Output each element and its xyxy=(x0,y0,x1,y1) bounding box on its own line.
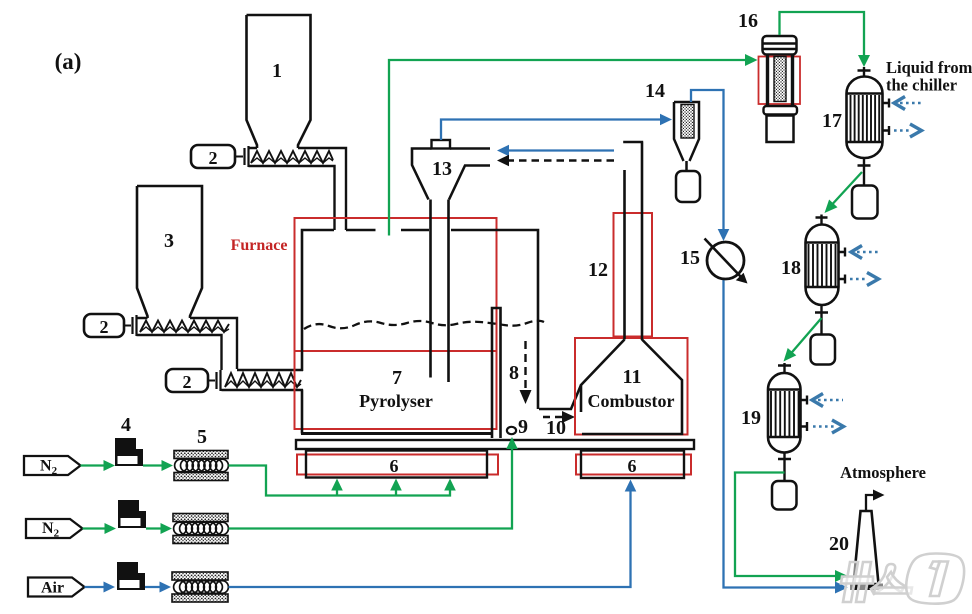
green line filter 16 to condenser 17 xyxy=(780,12,865,59)
svg-text:18: 18 xyxy=(781,257,801,279)
heater 6 left red box xyxy=(297,455,498,475)
svg-text:Liquid from: Liquid from xyxy=(886,58,972,77)
condenser 17 coolant nozzle in xyxy=(883,99,890,108)
filter 16 red box xyxy=(759,57,801,105)
screw conveyor 1 channel xyxy=(249,148,347,230)
collection pot under 17 xyxy=(852,186,878,219)
blue arrow riser gas to cyclone 13 xyxy=(504,149,614,151)
bed level dashed wavy line xyxy=(304,321,544,329)
svg-text:11: 11 xyxy=(623,366,642,388)
filter 16 candle element xyxy=(774,57,786,102)
combustor 11 body xyxy=(581,340,682,435)
wire preheater row2 to nozzle 9 xyxy=(229,446,513,529)
shaft 2a xyxy=(235,156,243,158)
screw feeder motor 2a xyxy=(191,145,235,168)
heater 6 right black box xyxy=(581,451,684,479)
svg-text:7: 7 xyxy=(392,367,402,389)
screw flights 2c xyxy=(225,373,301,387)
wire MFC to preheater row3 xyxy=(145,586,162,588)
hopper 1 xyxy=(247,15,311,148)
stack outlet arrow xyxy=(866,495,875,511)
shaft 2b xyxy=(124,325,131,327)
svg-text:19: 19 xyxy=(741,407,761,429)
condenser 18 top nozzle xyxy=(816,215,828,227)
svg-text:5: 5 xyxy=(197,426,207,448)
condenser 19 top nozzle xyxy=(778,363,791,374)
wire MFC to preheater row1 xyxy=(143,464,164,466)
dotted arrow out 17 xyxy=(894,129,912,132)
condenser 18 coolant nozzle in xyxy=(839,248,846,257)
wire preheater row1 to pyrolyser heater xyxy=(229,466,451,496)
svg-text:6: 6 xyxy=(390,456,399,476)
condenser 19 coolant nozzle out xyxy=(801,422,808,431)
wire N2 to MFC row1 xyxy=(81,464,107,466)
wire preheater row3 to combustor heater xyxy=(229,489,631,587)
shaft 2c xyxy=(208,380,215,382)
condenser 17 tubes xyxy=(851,95,880,141)
transfer duct roof to combustor xyxy=(539,385,581,409)
condenser 18 tubes xyxy=(809,244,836,286)
svg-text:Combustor: Combustor xyxy=(587,391,674,411)
svg-text:Furnace: Furnace xyxy=(231,237,288,254)
condenser 17 bottom nozzle xyxy=(858,158,871,186)
svg-text:3: 3 xyxy=(164,230,174,252)
combustor red box xyxy=(575,338,688,435)
condenser 19 bottom nozzle xyxy=(778,453,791,482)
coupling 2c xyxy=(215,372,217,389)
svg-text:13: 13 xyxy=(432,158,452,180)
blower valve 15 xyxy=(707,242,744,279)
furnace red box xyxy=(295,218,497,429)
svg-text:17: 17 xyxy=(822,110,842,132)
heater green arrows xyxy=(336,488,338,496)
pyrolyser weir wall xyxy=(492,308,501,438)
mass flow controller 4 row1 xyxy=(115,438,136,466)
blue line valve 15 down to stack xyxy=(724,280,841,588)
stack 20 xyxy=(854,511,879,584)
preheater 5 row3 xyxy=(172,572,228,580)
cyclone 14 inner filter column xyxy=(681,105,694,139)
screw conveyor 3 channel xyxy=(137,318,238,370)
green arrow 18 to 19 xyxy=(787,318,822,358)
svg-text:(a): (a) xyxy=(55,49,82,74)
svg-text:6: 6 xyxy=(628,456,637,476)
dotted arrow in 18 xyxy=(851,246,862,259)
collection pot under 19 xyxy=(772,481,797,510)
condenser 18 bottom nozzle xyxy=(815,305,828,335)
svg-text:10: 10 xyxy=(546,417,566,439)
green arrow 17 to 18 xyxy=(827,172,862,210)
condenser 18 coolant nozzle out xyxy=(839,275,846,284)
screw conveyor 2c channel into pyrolyser xyxy=(222,370,304,390)
svg-text:the chiller: the chiller xyxy=(886,76,957,95)
condenser 17 shell xyxy=(847,77,883,159)
mass flow controller 4 row3 xyxy=(117,562,138,590)
svg-text:12: 12 xyxy=(588,259,608,281)
nozzle 9 circle xyxy=(507,427,516,434)
cyclone 13 body xyxy=(412,149,490,200)
svg-text:Atmosphere: Atmosphere xyxy=(840,463,926,482)
wire N2 to MFC row2 xyxy=(83,527,108,529)
preheater 5 row2 xyxy=(173,514,228,522)
screw feeder motor 2b xyxy=(84,314,124,337)
heater 6 left black box xyxy=(306,451,487,478)
cyclone 14 collection pot xyxy=(676,171,700,202)
svg-text:15: 15 xyxy=(680,247,700,269)
dotted arrow out 18 xyxy=(850,278,868,281)
black dashed arrow solids to cyclone 13 xyxy=(506,159,614,161)
condenser 17 coolant nozzle out xyxy=(883,126,890,135)
dashed arrow 8 xyxy=(524,341,526,394)
svg-text:1: 1 xyxy=(272,60,282,82)
blue line cyclone14 to valve 15 xyxy=(691,90,724,230)
dashed arrow 10 xyxy=(543,416,566,418)
heater 6 right red box xyxy=(576,455,691,475)
svg-text:2: 2 xyxy=(183,372,192,392)
collection pot under 18 xyxy=(811,335,836,365)
Air tag row3 xyxy=(28,578,85,597)
N2 tag row1 xyxy=(24,456,81,475)
hopper 3 xyxy=(137,186,202,318)
condenser 19 coolant nozzle in xyxy=(801,396,808,405)
green line pyrolyser to filter 16 xyxy=(389,60,750,236)
condenser 19 tubes xyxy=(771,391,799,436)
svg-text:Pyrolyser: Pyrolyser xyxy=(359,391,433,411)
green line 19 to stack xyxy=(735,473,840,577)
svg-text:16: 16 xyxy=(738,10,758,32)
svg-text:Air: Air xyxy=(41,580,64,597)
svg-text:2: 2 xyxy=(209,148,218,168)
screw flights 1 xyxy=(251,151,333,163)
screw flights 3 xyxy=(140,321,229,333)
cyclone 13 vortex finder xyxy=(432,140,451,149)
coupling 2a xyxy=(243,148,245,165)
svg-text:4: 4 xyxy=(121,414,131,436)
cyclone 13 dipleg xyxy=(431,200,449,383)
dotted arrow out 19 xyxy=(813,425,834,428)
blue line cyclone13 to cyclone14 xyxy=(441,120,664,141)
pyrolyser floor xyxy=(301,432,492,435)
svg-text:14: 14 xyxy=(645,80,665,102)
svg-text:20: 20 xyxy=(829,533,849,555)
wire MFC to preheater row2 xyxy=(146,527,163,529)
cyclone 14 body xyxy=(674,102,699,171)
condenser 19 shell xyxy=(768,373,801,453)
svg-text:9: 9 xyxy=(518,416,528,438)
condenser 17 top nozzle xyxy=(858,67,871,77)
base plate xyxy=(296,440,694,449)
wire Air to MFC row3 xyxy=(85,586,107,588)
riser 12 pipe xyxy=(623,142,643,340)
pyrolyser 7 vessel walls xyxy=(302,230,538,434)
filter 16 bottom box xyxy=(767,116,794,143)
N2 tag row2 xyxy=(26,519,83,538)
svg-text:2: 2 xyxy=(100,317,109,337)
screw feeder motor 2c xyxy=(166,369,208,392)
mass flow controller 4 row2 xyxy=(118,500,139,528)
svg-text:8: 8 xyxy=(509,362,519,384)
coupling 2b xyxy=(131,317,133,334)
dotted arrow in 19 xyxy=(812,394,823,407)
filter 16 top cap xyxy=(763,36,797,55)
riser 12 red box xyxy=(614,213,653,337)
filter 16 body xyxy=(768,55,793,106)
dotted arrow in 17 xyxy=(894,97,905,110)
watermark news1 logo xyxy=(841,554,964,604)
furnace red mid line xyxy=(295,350,497,352)
condenser 18 shell xyxy=(806,225,839,306)
preheater 5 row1 xyxy=(174,451,228,459)
filter 16 flange xyxy=(764,106,798,115)
